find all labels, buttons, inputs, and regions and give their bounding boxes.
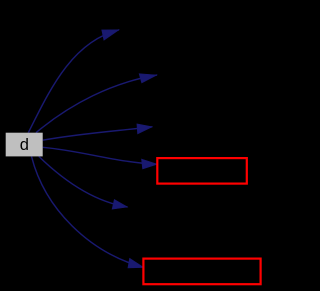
arrowhead edge5 [112, 200, 127, 210]
arrowhead edge6 [128, 258, 144, 268]
arrowhead edge2 [139, 74, 157, 83]
wire edge2 [36, 75, 157, 133]
arrowhead edge3 [137, 124, 152, 134]
node box red2 [143, 259, 260, 285]
arrowhead edge1 [102, 30, 119, 41]
wire edge3 [43, 127, 153, 140]
wire edge5 [39, 156, 128, 207]
arrowhead edge4 [142, 159, 158, 169]
node box red1 [157, 158, 247, 184]
node d (gray box) [6, 133, 43, 157]
wire edge4 [43, 147, 158, 164]
svg-text:d: d [20, 136, 29, 154]
wire edge1 [28, 30, 119, 133]
wire edge6 [32, 156, 144, 267]
